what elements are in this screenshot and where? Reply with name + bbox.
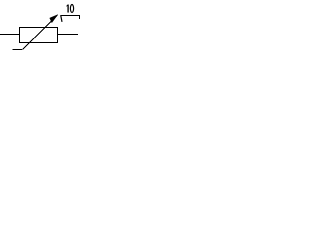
value label "10" digit 1	[67, 5, 69, 13]
resistor R (body rectangle)	[20, 28, 58, 43]
wire W2 (right lead)	[58, 34, 79, 36]
label underline bracket	[61, 16, 80, 20]
wire W1 (left lead)	[0, 34, 20, 36]
variable resistor (rheostat) symbol, value 10	[0, 0, 81, 51]
wiper arrowhead	[50, 15, 58, 23]
value label "10" digit 0	[70, 5, 73, 13]
label leader tick (left, slanted)	[61, 15, 62, 22]
wiper arrow shaft	[23, 15, 58, 49]
wiper arrow tail foot	[12, 49, 22, 51]
